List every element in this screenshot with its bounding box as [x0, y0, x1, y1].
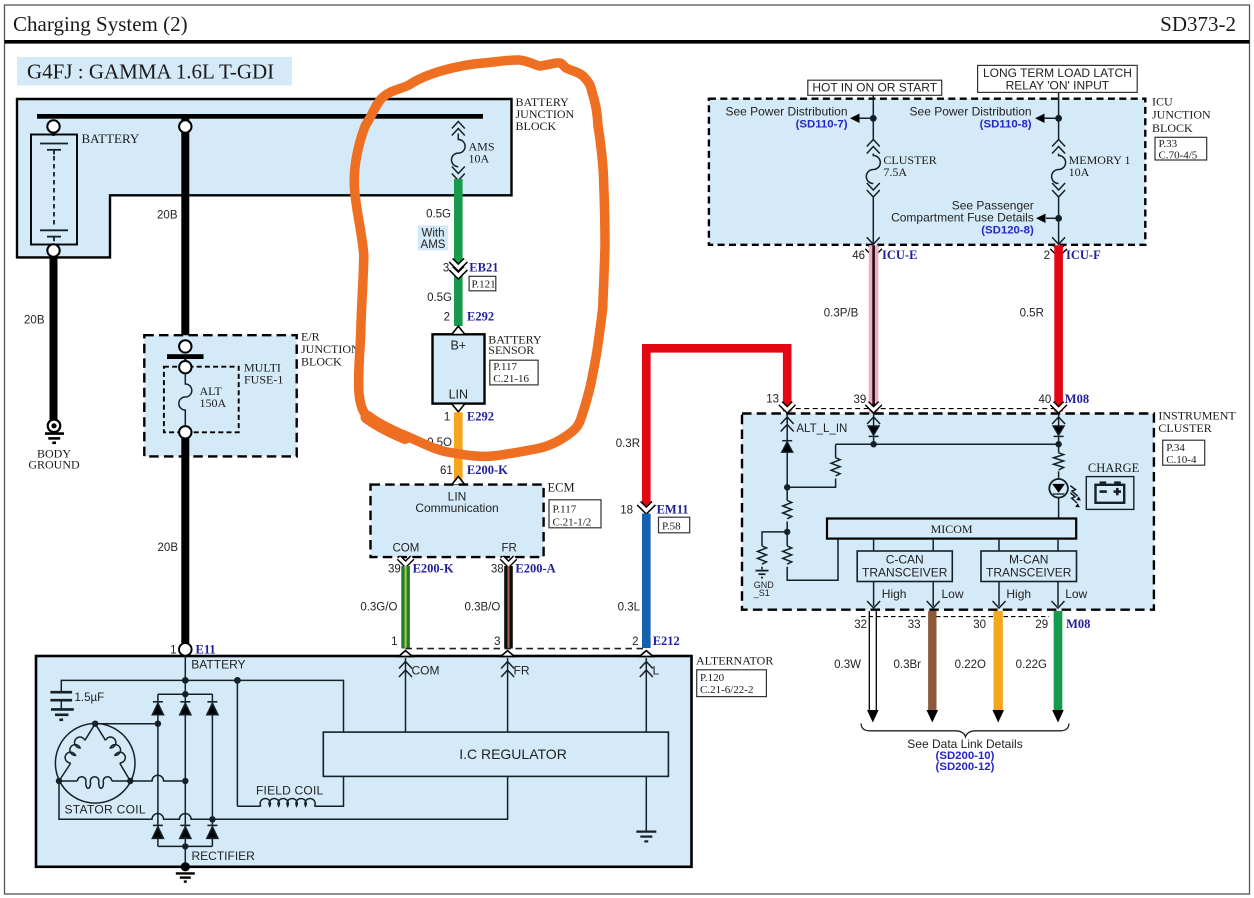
svg-text:0.3W: 0.3W	[834, 659, 861, 671]
wire 0.3P/B	[869, 245, 879, 413]
svg-text:61: 61	[440, 465, 453, 477]
INSTRUMENT CLUSTER box	[742, 414, 1154, 610]
micom to transceivers	[873, 539, 875, 551]
svg-text:ALT_L_IN: ALT_L_IN	[796, 423, 847, 435]
E/R bus bar	[167, 354, 204, 359]
svg-text:See Power Distribution: See Power Distribution	[910, 104, 1032, 118]
svg-text:29: 29	[1035, 619, 1048, 631]
svg-text:COM: COM	[393, 542, 420, 554]
svg-text:BLOCK: BLOCK	[1152, 121, 1193, 135]
ECM box	[371, 485, 544, 557]
wire 0.3R from EM11 up and over to cluster pin 13	[646, 348, 787, 506]
battery cell box	[31, 135, 77, 245]
rectifier branch verticals	[157, 694, 159, 846]
svg-text:ICU-E: ICU-E	[882, 248, 917, 262]
svg-text:LIN: LIN	[449, 388, 468, 402]
ECM top chevron pin 61	[452, 477, 465, 485]
svg-text:TRANSCEIVER: TRANSCEIVER	[862, 565, 948, 579]
connector EM11 (in-line)	[639, 503, 654, 510]
svg-text:10A: 10A	[1069, 165, 1090, 179]
svg-text:See Data Link Details: See Data Link Details	[907, 737, 1022, 751]
svg-text:40: 40	[1039, 394, 1052, 406]
ECM bottom chevrons	[399, 558, 515, 565]
svg-text:EB21: EB21	[469, 261, 498, 275]
svg-text:(SD120-8): (SD120-8)	[981, 225, 1034, 237]
svg-text:Communication: Communication	[415, 501, 498, 515]
connector EB21 (in-line)	[454, 263, 463, 326]
svg-text:0.3Br: 0.3Br	[894, 659, 922, 671]
svg-text:High: High	[1006, 587, 1031, 601]
svg-text:0.3G/O: 0.3G/O	[360, 601, 397, 613]
svg-text:STATOR COIL: STATOR COIL	[65, 803, 146, 817]
svg-text:P.117: P.117	[553, 504, 577, 516]
svg-text:BATTERY: BATTERY	[82, 131, 140, 146]
C-CAN TRANSCEIVER box	[857, 551, 952, 582]
regulator FR sense from stator line drawn above; L to ground	[645, 776, 647, 831]
battery top terminal node	[47, 120, 59, 132]
rectifier diodes bottom row	[152, 825, 218, 838]
resistor node A to node B	[786, 487, 788, 532]
rectifier diodes top row	[152, 702, 218, 715]
I.C REGULATOR box	[323, 732, 668, 776]
svg-text:0.3R: 0.3R	[616, 438, 640, 450]
svg-text:B+: B+	[450, 339, 466, 353]
svg-text:E292: E292	[467, 310, 494, 324]
wire 0.3G/O COM	[401, 566, 410, 649]
wire 0.3W	[868, 611, 870, 710]
svg-text:2: 2	[1044, 250, 1050, 262]
M-CAN TRANSCEIVER box	[981, 551, 1077, 582]
svg-text:18: 18	[620, 504, 633, 516]
svg-text:P.121: P.121	[472, 279, 496, 291]
E/R junction block	[144, 335, 296, 456]
battery top stub wire	[53, 132, 55, 137]
svg-text:TRANSCEIVER: TRANSCEIVER	[986, 565, 1072, 579]
svg-text:2: 2	[444, 312, 450, 324]
svg-text:Compartment Fuse Details: Compartment Fuse Details	[891, 210, 1034, 224]
svg-text:0.22O: 0.22O	[955, 659, 986, 671]
pin arrows COM FR L	[399, 658, 653, 681]
branch see power distribution SD110-8	[1055, 115, 1062, 122]
svg-text:1: 1	[170, 645, 176, 657]
rail	[836, 443, 1059, 445]
svg-text:M08: M08	[1065, 392, 1089, 406]
node B down to micom	[787, 532, 838, 580]
svg-text:BLOCK: BLOCK	[516, 119, 557, 133]
wire 0.5R	[1054, 245, 1063, 411]
stator right phase to rectifier with hump	[130, 775, 185, 781]
branch see passenger compartment fuse details SD120-8	[1058, 197, 1060, 243]
fuse AMS 10A in junction block	[451, 122, 465, 181]
svg-text:FUSE-1: FUSE-1	[244, 373, 283, 387]
svg-text:JUNCTION: JUNCTION	[1152, 107, 1211, 121]
ICU junction block	[709, 99, 1145, 245]
sensor top chevron pin 2	[452, 326, 465, 334]
svg-text:2: 2	[632, 636, 638, 648]
svg-text:39: 39	[854, 394, 867, 406]
svg-text:1.5µF: 1.5µF	[75, 692, 105, 704]
svg-text:7.5A: 7.5A	[883, 165, 907, 179]
svg-text:GROUND: GROUND	[28, 458, 80, 472]
arrowheads to data link	[867, 710, 879, 723]
svg-text:ECM: ECM	[548, 481, 575, 495]
branch to GND_S1	[762, 532, 787, 570]
svg-text:(SD110-7): (SD110-7)	[796, 119, 848, 131]
engine tag G4FJ highlight	[17, 57, 292, 86]
header thick rule	[5, 40, 1250, 44]
tag LONG TERM LOAD LATCH RELAY 'ON' INPUT	[978, 65, 1138, 92]
svg-text:3: 3	[494, 636, 500, 648]
svg-text:FR: FR	[514, 664, 530, 678]
svg-text:With: With	[422, 227, 445, 239]
svg-text:38: 38	[491, 563, 504, 575]
svg-text:C.21-16: C.21-16	[493, 373, 529, 385]
node A	[784, 484, 790, 490]
fuse MEMORY 1 10A	[1052, 140, 1066, 198]
rectifier bottom bus	[158, 845, 213, 847]
svg-text:150A: 150A	[200, 396, 227, 410]
stator left phase down and across with humps	[59, 776, 508, 819]
node B	[784, 529, 790, 535]
fuse CLUSTER 7.5A	[866, 140, 880, 198]
wire E11 into box	[184, 656, 186, 681]
wire 0.3B/O FR	[504, 566, 513, 649]
svg-text:C.10-4: C.10-4	[1166, 454, 1197, 466]
svg-text:3: 3	[443, 263, 449, 275]
svg-text:MICOM: MICOM	[931, 522, 973, 536]
connector M08 dashed row top	[787, 408, 1058, 410]
wire 0.5O LIN to ECM	[454, 412, 463, 482]
wire 0.5G (AMS to EB21)	[454, 179, 463, 263]
svg-text:BLOCK: BLOCK	[301, 355, 342, 369]
svg-text:Charging System (2): Charging System (2)	[13, 12, 188, 36]
svg-text:ICU-F: ICU-F	[1066, 248, 1101, 262]
svg-text:High: High	[882, 587, 907, 601]
wire from LONG TERM tag	[1058, 92, 1060, 139]
svg-text:20B: 20B	[24, 315, 45, 327]
node at E/R entry	[179, 340, 191, 352]
stator delta windings	[59, 724, 130, 789]
pins 46 ICU-E / 2 ICU-F	[867, 247, 1065, 254]
svg-text:P.58: P.58	[662, 520, 681, 532]
svg-text:SD373-2: SD373-2	[1160, 12, 1236, 36]
svg-text:G4FJ : GAMMA 1.6L T-GDI: G4FJ : GAMMA 1.6L T-GDI	[27, 60, 274, 84]
wire fuse to pin 46 with arrow	[872, 197, 874, 243]
battery junction block (blue L-shape)	[17, 99, 512, 257]
svg-text:P.120: P.120	[700, 672, 725, 684]
svg-text:E200-K: E200-K	[413, 561, 454, 575]
svg-text:20B: 20B	[158, 542, 179, 554]
battery B1 cells	[40, 144, 68, 242]
wire 0.22G	[1054, 611, 1063, 710]
svg-text:ICU: ICU	[1152, 94, 1173, 108]
svg-text:BATTERY: BATTERY	[191, 658, 245, 672]
wire bus to E/R block 20B	[181, 118, 189, 341]
battery bottom terminal node	[47, 244, 59, 256]
brace	[861, 724, 1069, 737]
svg-text:FIELD COIL: FIELD COIL	[256, 784, 323, 798]
svg-text:L: L	[653, 664, 660, 678]
svg-text:M08: M08	[1066, 617, 1090, 631]
orange annotation loop	[354, 60, 605, 456]
sensor bottom diamond pin 1	[452, 404, 465, 412]
ALTERNATOR box	[36, 656, 692, 867]
svg-text:E292: E292	[467, 409, 494, 423]
svg-text:E200-K: E200-K	[467, 463, 508, 477]
svg-text:P.117: P.117	[493, 361, 517, 373]
svg-text:HOT IN ON OR START: HOT IN ON OR START	[812, 81, 937, 95]
tag HOT IN ON OR START	[808, 80, 942, 95]
LED	[1049, 479, 1068, 498]
wire 0.3Br	[928, 611, 936, 710]
svg-text:0.22G: 0.22G	[1016, 659, 1047, 671]
battery sensor box	[433, 334, 485, 403]
svg-text:CHARGE: CHARGE	[1088, 461, 1140, 475]
capacitor 1.5uF	[50, 692, 73, 720]
rectifier ground	[184, 846, 186, 866]
rectifier top bus	[158, 680, 213, 694]
wire 0.22O	[994, 611, 1003, 710]
svg-text:E11: E11	[196, 643, 216, 657]
svg-text:(SD110-8): (SD110-8)	[980, 119, 1032, 131]
svg-text:13: 13	[766, 394, 779, 406]
svg-text:0.5G: 0.5G	[427, 292, 452, 304]
svg-text:C.21-1/2: C.21-1/2	[553, 517, 592, 529]
svg-text:P.34: P.34	[1166, 442, 1185, 454]
svg-text:FR: FR	[502, 542, 517, 554]
svg-text:46: 46	[852, 250, 865, 262]
svg-text:ALTERNATOR: ALTERNATOR	[696, 654, 773, 668]
svg-text:AMS: AMS	[421, 239, 446, 251]
stator top phase to rectifier	[95, 723, 158, 725]
svg-text:30: 30	[973, 619, 986, 631]
annotation thicker blob bottom-left	[367, 417, 405, 438]
svg-text:1: 1	[391, 636, 397, 648]
svg-text:(SD200-12): (SD200-12)	[936, 761, 995, 773]
wire 0.3L EM11 to E212	[642, 514, 651, 649]
svg-text:39: 39	[388, 563, 401, 575]
stator coil circle	[55, 724, 135, 804]
wires pins to regulator	[405, 681, 407, 732]
wire E/R to alternator 20B	[181, 438, 189, 643]
multi fuse-1 dashed box	[164, 367, 239, 433]
branch see power distribution SD110-7	[870, 115, 877, 122]
resistor + LED charge lamp branch	[1058, 444, 1060, 479]
svg-text:1: 1	[444, 411, 450, 423]
wire battery to body ground 20B	[50, 256, 58, 419]
svg-text:33: 33	[908, 619, 921, 631]
transceiver outputs with down arrows	[867, 582, 1064, 609]
svg-text:E200-A: E200-A	[515, 561, 555, 575]
svg-text:0.5R: 0.5R	[1020, 307, 1044, 319]
svg-text:See Power Distribution: See Power Distribution	[725, 104, 847, 118]
field coil	[237, 680, 260, 806]
chevrons at alternator edge	[399, 651, 653, 657]
svg-text:_S1: _S1	[753, 588, 770, 598]
svg-text:10A: 10A	[469, 152, 490, 166]
bus bar	[37, 114, 483, 119]
svg-text:0.3B/O: 0.3B/O	[464, 601, 500, 613]
svg-text:0.3L: 0.3L	[618, 601, 641, 613]
resistor branch rail to node A	[787, 444, 835, 487]
svg-text:I.C REGULATOR: I.C REGULATOR	[459, 746, 567, 762]
connector E212 dashed row	[406, 648, 647, 650]
wire from HOT tag	[872, 95, 874, 139]
pin 13 entry arrow	[781, 414, 1065, 441]
diode on pin13 line	[782, 440, 792, 442]
LED emission arrows	[1070, 486, 1077, 503]
svg-text:CLUSTER: CLUSTER	[1158, 421, 1211, 435]
svg-text:COM: COM	[412, 664, 440, 678]
svg-text:20B: 20B	[157, 209, 178, 221]
diodes on pins 39/40 pointing down	[868, 426, 879, 435]
body ground symbol	[45, 420, 64, 443]
svg-text:RECTIFIER: RECTIFIER	[192, 849, 256, 863]
svg-text:EM11: EM11	[657, 502, 689, 516]
svg-text:RELAY 'ON' INPUT: RELAY 'ON' INPUT	[1006, 78, 1110, 92]
svg-text:0.3P/B: 0.3P/B	[824, 307, 859, 319]
node B+ rail	[61, 680, 343, 732]
svg-text:0.5G: 0.5G	[426, 209, 451, 221]
svg-text:SENSOR: SENSOR	[488, 343, 534, 357]
svg-text:C.70-4/5: C.70-4/5	[1159, 149, 1198, 161]
MICOM box	[827, 519, 1076, 539]
svg-text:Low: Low	[1065, 587, 1087, 601]
connector M08 dashed row bottom	[861, 616, 1049, 618]
svg-text:Low: Low	[942, 587, 964, 601]
svg-text:C.21-6/22-2: C.21-6/22-2	[700, 684, 753, 696]
fuse ALT 150A	[179, 361, 191, 373]
svg-text:E212: E212	[653, 634, 680, 648]
With AMS highlight	[418, 225, 448, 250]
svg-text:32: 32	[854, 619, 867, 631]
